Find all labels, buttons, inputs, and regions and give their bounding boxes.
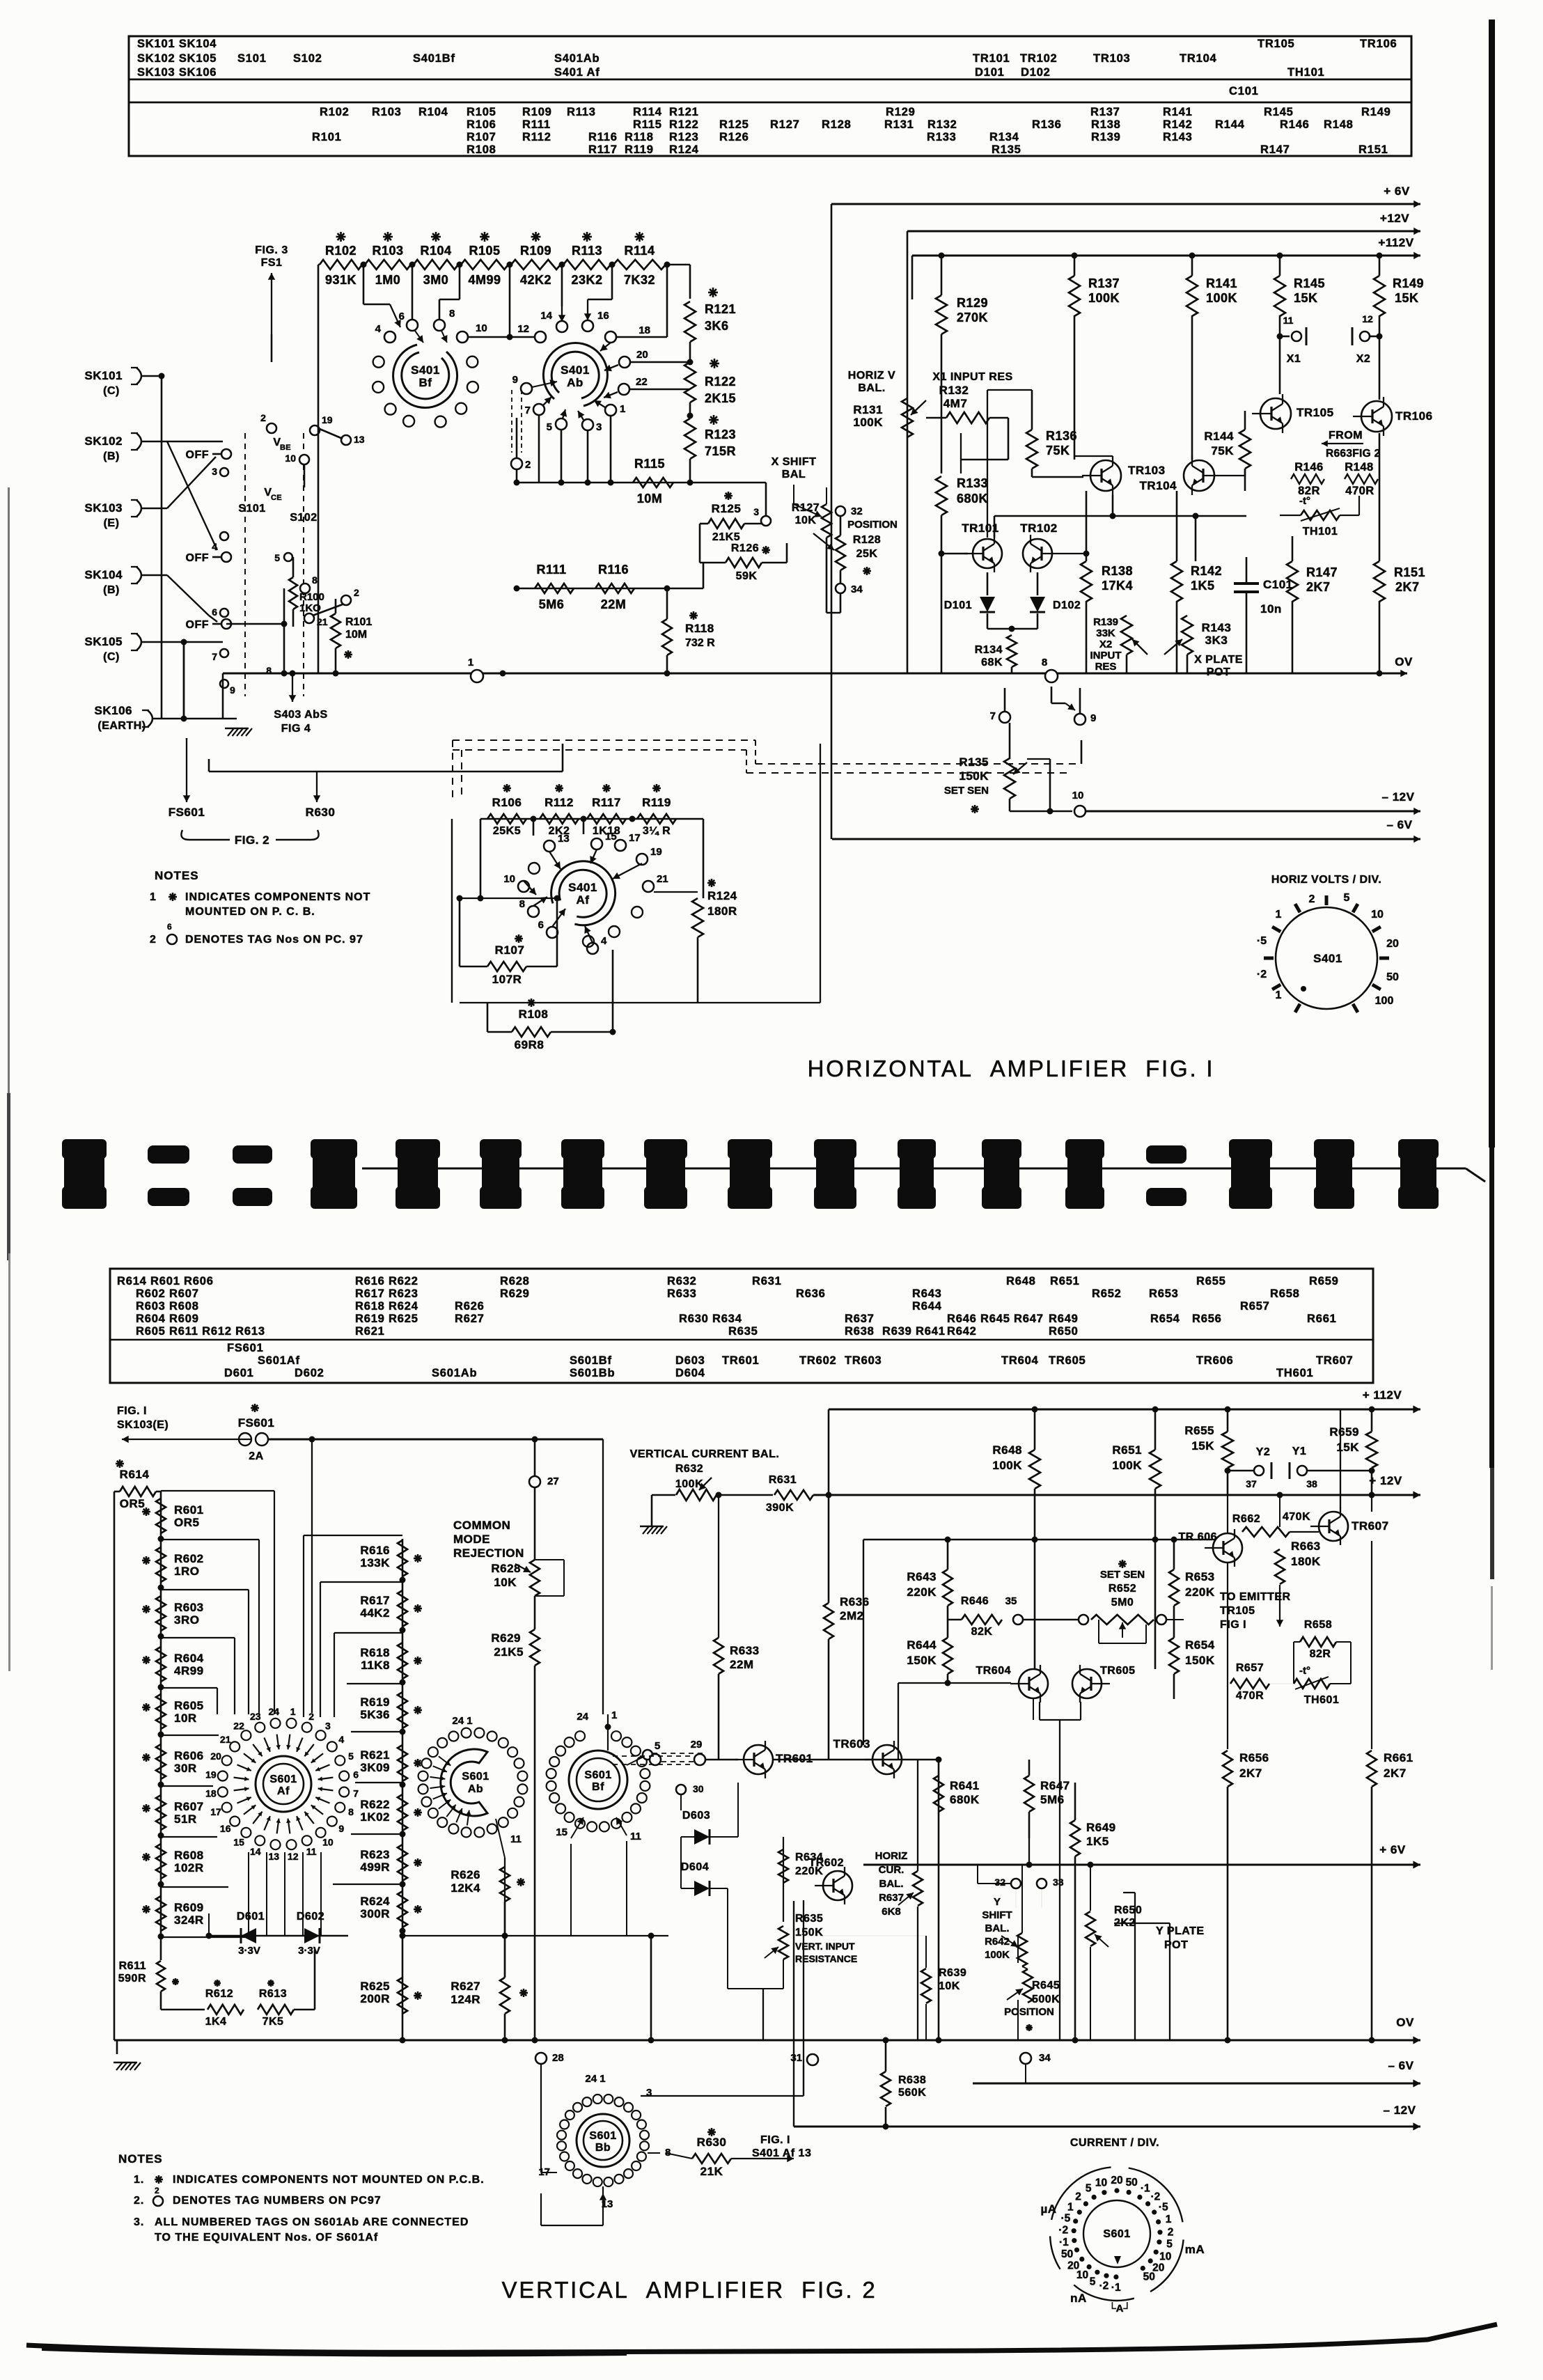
svg-text:– 12V: – 12V <box>1382 790 1415 804</box>
svg-text:R107: R107 <box>495 944 525 957</box>
svg-text:680K: 680K <box>957 492 988 506</box>
svg-text:2: 2 <box>525 459 531 471</box>
svg-text:R646 R645 R647: R646 R645 R647 <box>947 1313 1044 1325</box>
svg-text:2.: 2. <box>134 2195 144 2207</box>
svg-text:+ 112V: + 112V <box>1363 1388 1402 1402</box>
svg-text:Ab: Ab <box>567 376 583 389</box>
svg-text:3K09: 3K09 <box>360 1761 390 1774</box>
svg-text:SET SEN: SET SEN <box>1100 1569 1145 1581</box>
svg-text:S101: S101 <box>237 52 267 65</box>
svg-text:(EARTH): (EARTH) <box>97 720 146 732</box>
svg-text:– 6V: – 6V <box>1387 818 1413 831</box>
svg-text:5: 5 <box>547 421 552 433</box>
svg-text:R139: R139 <box>1093 616 1118 628</box>
svg-text:R629: R629 <box>500 1287 530 1300</box>
svg-text:15K: 15K <box>1395 291 1419 305</box>
svg-text:25K: 25K <box>856 548 878 560</box>
svg-text:3¼ R: 3¼ R <box>643 825 671 837</box>
svg-text:(B): (B) <box>103 451 120 462</box>
svg-text:124R: 124R <box>451 1993 480 2006</box>
svg-text:R631: R631 <box>769 1474 797 1486</box>
svg-text:S601: S601 <box>589 2130 616 2142</box>
svg-text:10: 10 <box>1159 2251 1171 2263</box>
svg-text:33: 33 <box>1053 1877 1064 1888</box>
svg-text:10: 10 <box>285 453 296 464</box>
svg-text:R146: R146 <box>1280 118 1310 131</box>
svg-text:R619: R619 <box>360 1696 390 1709</box>
svg-text:44K2: 44K2 <box>360 1606 390 1620</box>
svg-text:R117: R117 <box>592 796 621 809</box>
svg-text:X1: X1 <box>1287 353 1301 365</box>
svg-text:DENOTES TAG Nos ON PC. 97: DENOTES TAG Nos ON PC. 97 <box>185 934 363 946</box>
svg-text:R658: R658 <box>1304 1619 1332 1631</box>
svg-text:17: 17 <box>210 1806 221 1817</box>
svg-text:FS601: FS601 <box>227 1342 264 1354</box>
svg-text:68K: 68K <box>981 657 1003 668</box>
svg-text:9: 9 <box>1090 712 1096 724</box>
svg-text:R109: R109 <box>522 106 552 118</box>
svg-text:VERTICAL CURRENT BAL.: VERTICAL CURRENT BAL. <box>630 1448 780 1460</box>
svg-text:R135: R135 <box>992 143 1021 156</box>
svg-text:3.: 3. <box>134 2216 144 2228</box>
svg-text:C101: C101 <box>1229 85 1259 97</box>
svg-text:R663FIG 2: R663FIG 2 <box>1326 448 1381 460</box>
svg-text:R105: R105 <box>469 244 500 258</box>
svg-text:R113: R113 <box>572 244 602 258</box>
svg-text:21K5: 21K5 <box>494 1645 524 1659</box>
svg-text:R617: R617 <box>360 1594 390 1607</box>
svg-text:17K4: 17K4 <box>1102 579 1133 593</box>
svg-text:R635: R635 <box>795 1913 823 1925</box>
svg-text:4: 4 <box>212 541 217 552</box>
svg-text:10n: 10n <box>1260 602 1282 616</box>
svg-text:270K: 270K <box>957 311 988 324</box>
svg-text:R115: R115 <box>634 457 665 471</box>
svg-text:OV: OV <box>1395 655 1413 668</box>
svg-text:32: 32 <box>994 1877 1005 1888</box>
svg-text:INDICATES COMPONENTS NOT MO: INDICATES COMPONENTS NOT MOUNTED ON P.C.… <box>173 2174 485 2186</box>
svg-text:R112: R112 <box>545 796 574 809</box>
svg-text:R108: R108 <box>467 143 496 156</box>
svg-text:·1: ·1 <box>1059 2237 1069 2248</box>
svg-text:50: 50 <box>1126 2177 1138 2189</box>
svg-text:R662: R662 <box>1232 1513 1260 1525</box>
svg-text:R643: R643 <box>912 1287 942 1300</box>
svg-text:33K: 33K <box>1096 627 1115 639</box>
svg-text:X1 INPUT RES: X1 INPUT RES <box>932 371 1012 383</box>
svg-text:59K: 59K <box>736 570 758 582</box>
svg-text:S601Ab: S601Ab <box>432 1367 477 1379</box>
svg-text:R630: R630 <box>697 2136 727 2149</box>
svg-text:R151: R151 <box>1358 143 1388 156</box>
svg-text:HORIZ: HORIZ <box>875 1850 908 1862</box>
svg-text:R114: R114 <box>624 244 655 258</box>
svg-text:·2: ·2 <box>1257 969 1267 980</box>
svg-text:D603: D603 <box>675 1354 705 1367</box>
svg-text:R641: R641 <box>950 1779 980 1792</box>
svg-text:1: 1 <box>1067 2202 1074 2214</box>
svg-text:R661: R661 <box>1384 1751 1413 1764</box>
svg-text:100K: 100K <box>1112 1459 1142 1472</box>
svg-text:FIG. 3: FIG. 3 <box>255 244 288 256</box>
svg-text:TR101: TR101 <box>973 52 1010 65</box>
svg-text:R122: R122 <box>705 375 736 389</box>
svg-text:R601: R601 <box>174 1503 204 1517</box>
svg-text:1M0: 1M0 <box>375 273 401 287</box>
svg-text:– 6V: – 6V <box>1388 2059 1414 2072</box>
svg-text:10: 10 <box>503 873 515 885</box>
svg-text:21: 21 <box>657 873 668 885</box>
svg-text:2K7: 2K7 <box>1395 580 1420 594</box>
svg-text:5K36: 5K36 <box>360 1708 390 1721</box>
svg-text:51R: 51R <box>174 1813 197 1826</box>
svg-text:13: 13 <box>558 833 570 845</box>
svg-text:D102: D102 <box>1021 66 1051 79</box>
svg-text:7: 7 <box>525 405 531 416</box>
svg-text:9: 9 <box>230 684 235 696</box>
svg-text:100: 100 <box>1375 995 1394 1007</box>
svg-text:2K15: 2K15 <box>705 391 736 405</box>
svg-text:470K: 470K <box>1283 1511 1310 1523</box>
svg-text:1: 1 <box>1276 909 1282 921</box>
svg-text:TR603: TR603 <box>833 1737 870 1751</box>
svg-text:TR605: TR605 <box>1100 1665 1136 1677</box>
svg-text:– 12V: – 12V <box>1384 2104 1416 2117</box>
svg-text:R144: R144 <box>1215 118 1245 131</box>
svg-text:·1: ·1 <box>1141 2183 1150 2195</box>
svg-text:Af: Af <box>277 1785 290 1797</box>
svg-text:560K: 560K <box>898 2087 926 2099</box>
svg-text:TR603: TR603 <box>845 1354 882 1367</box>
svg-text:TR607: TR607 <box>1352 1519 1389 1533</box>
svg-text:HORIZ V: HORIZ V <box>848 370 895 382</box>
svg-text:D604: D604 <box>675 1367 705 1379</box>
svg-text:R109: R109 <box>520 244 551 258</box>
svg-text:(B): (B) <box>103 584 120 596</box>
svg-text:R146: R146 <box>1294 461 1323 473</box>
svg-text:TR103: TR103 <box>1128 464 1166 477</box>
svg-text:TO THE EQUIVALENT Nos. OF: TO THE EQUIVALENT Nos. OF S601Af <box>155 2232 378 2244</box>
svg-text:R655: R655 <box>1184 1424 1214 1437</box>
svg-text:R122: R122 <box>669 118 699 131</box>
svg-text:20: 20 <box>1111 2175 1122 2186</box>
svg-text:37: 37 <box>1246 1478 1257 1489</box>
svg-text:R133: R133 <box>927 131 957 143</box>
svg-text:S401Bf: S401Bf <box>413 52 455 65</box>
svg-text:13: 13 <box>269 1851 280 1862</box>
svg-text:R148: R148 <box>1345 461 1373 473</box>
svg-text:R617 R623: R617 R623 <box>355 1287 418 1300</box>
svg-text:R644: R644 <box>907 1638 937 1652</box>
svg-text:+112V: +112V <box>1378 236 1413 249</box>
svg-text:3K6: 3K6 <box>705 319 729 333</box>
svg-text:R116: R116 <box>598 563 629 577</box>
svg-text:R138: R138 <box>1091 118 1121 131</box>
svg-text:3K3: 3K3 <box>1205 634 1228 647</box>
svg-text:30: 30 <box>693 1783 704 1794</box>
svg-text:SK102 SK105: SK102 SK105 <box>137 52 217 65</box>
svg-text:BAL.: BAL. <box>879 1878 904 1890</box>
svg-text:R654: R654 <box>1185 1638 1215 1652</box>
svg-text:FIG. I: FIG. I <box>117 1405 147 1417</box>
svg-text:500K: 500K <box>1032 1994 1060 2005</box>
svg-text:R134: R134 <box>989 131 1019 143</box>
svg-text:6: 6 <box>353 1769 359 1780</box>
svg-text:TR606: TR606 <box>1196 1354 1234 1367</box>
svg-text:X2: X2 <box>1356 353 1371 365</box>
svg-text:R149: R149 <box>1393 276 1424 290</box>
svg-text:S401: S401 <box>1313 952 1342 965</box>
svg-text:5: 5 <box>1090 2276 1096 2288</box>
svg-text:BAL.: BAL. <box>858 382 885 394</box>
svg-text:R131: R131 <box>853 403 883 416</box>
svg-text:13: 13 <box>354 434 365 445</box>
svg-text:7K32: 7K32 <box>624 273 655 287</box>
svg-text:BAL: BAL <box>782 469 806 480</box>
svg-text:22M: 22M <box>730 1658 754 1671</box>
svg-text:R659: R659 <box>1309 1275 1339 1287</box>
svg-text:24 1: 24 1 <box>452 1715 472 1727</box>
svg-text:28: 28 <box>552 2052 564 2064</box>
svg-text:R619 R625: R619 R625 <box>355 1313 418 1325</box>
svg-text:9: 9 <box>512 374 518 386</box>
svg-text:nA: nA <box>1070 2292 1087 2305</box>
svg-text:390K: 390K <box>766 1502 794 1514</box>
svg-text:R129: R129 <box>886 106 916 118</box>
svg-text:R124: R124 <box>707 889 737 902</box>
svg-text:R108: R108 <box>519 1008 549 1021</box>
svg-text:S101: S101 <box>238 503 265 515</box>
svg-text:TH601: TH601 <box>1304 1694 1340 1706</box>
svg-text:1K4: 1K4 <box>205 2016 227 2028</box>
svg-text:FIG. I: FIG. I <box>760 2134 790 2146</box>
svg-text:R104: R104 <box>420 244 451 258</box>
svg-text:19: 19 <box>650 846 662 858</box>
svg-text:31: 31 <box>790 2052 802 2064</box>
svg-text:5: 5 <box>1166 2239 1173 2250</box>
svg-text:R614 R601 R606: R614 R601 R606 <box>117 1275 214 1287</box>
svg-text:R651: R651 <box>1112 1443 1142 1457</box>
svg-text:R613: R613 <box>259 1988 287 2000</box>
svg-text:R663: R663 <box>1291 1540 1321 1553</box>
svg-text:3: 3 <box>646 2087 652 2099</box>
svg-text:R636: R636 <box>840 1595 870 1608</box>
svg-text:300R: 300R <box>360 1907 390 1920</box>
svg-text:R653: R653 <box>1185 1570 1215 1583</box>
svg-text:931K: 931K <box>325 273 357 287</box>
svg-text:HORIZONTAL AMPLIFIER FIG. I: HORIZONTAL AMPLIFIER FIG. I <box>808 1056 1215 1081</box>
svg-text:SK101 SK104: SK101 SK104 <box>137 38 217 50</box>
svg-text:TR102: TR102 <box>1020 52 1058 65</box>
svg-text:TR104: TR104 <box>1139 479 1177 492</box>
svg-text:(C): (C) <box>103 385 120 397</box>
svg-text:12K4: 12K4 <box>451 1881 480 1895</box>
svg-text:5: 5 <box>655 1740 660 1752</box>
svg-text:TH101: TH101 <box>1303 526 1338 538</box>
svg-text:R114: R114 <box>633 106 662 118</box>
svg-text:ALL NUMBERED TAGS ON S601A: ALL NUMBERED TAGS ON S601Ab ARE CONNECTE… <box>155 2216 469 2228</box>
svg-text:R656: R656 <box>1239 1751 1269 1764</box>
svg-text:mA: mA <box>1185 2243 1205 2256</box>
svg-text:Y: Y <box>994 1896 1001 1908</box>
svg-text:100K: 100K <box>1206 291 1237 305</box>
svg-text:X PLATE: X PLATE <box>1194 654 1243 666</box>
svg-text:+ 6V: + 6V <box>1379 1843 1406 1856</box>
svg-text:34: 34 <box>1039 2052 1051 2064</box>
svg-text:NOTES: NOTES <box>155 869 199 882</box>
svg-text:R638: R638 <box>845 1325 875 1338</box>
svg-text:715R: 715R <box>705 444 736 458</box>
svg-text:82R: 82R <box>1310 1648 1331 1660</box>
svg-text:1RO: 1RO <box>174 1565 199 1578</box>
svg-text:(C): (C) <box>103 651 120 663</box>
svg-text:D601: D601 <box>224 1367 254 1379</box>
svg-text:BAL.: BAL. <box>985 1923 1010 1934</box>
svg-text:7K5: 7K5 <box>263 2016 284 2028</box>
svg-text:150K: 150K <box>795 1927 823 1939</box>
svg-text:R147: R147 <box>1260 143 1290 156</box>
svg-text:R106: R106 <box>492 796 522 809</box>
svg-text:24: 24 <box>269 1706 280 1717</box>
svg-text:4R99: 4R99 <box>174 1664 204 1677</box>
svg-text:50: 50 <box>1061 2248 1073 2260</box>
svg-text:HORIZ VOLTS / DIV.: HORIZ VOLTS / DIV. <box>1271 874 1381 886</box>
svg-text:R147: R147 <box>1306 565 1338 579</box>
svg-text:R126: R126 <box>719 131 749 143</box>
svg-text:R116: R116 <box>588 131 618 143</box>
svg-text:R103: R103 <box>372 244 403 258</box>
svg-text:20: 20 <box>1386 938 1399 950</box>
svg-text:1: 1 <box>611 1709 617 1721</box>
svg-text:R101: R101 <box>312 131 342 143</box>
svg-text:470R: 470R <box>1345 485 1374 497</box>
svg-text:OR5: OR5 <box>174 1516 199 1529</box>
svg-text:23: 23 <box>250 1711 261 1722</box>
svg-text:X SHIFT: X SHIFT <box>771 456 817 468</box>
svg-text:R607: R607 <box>174 1800 204 1813</box>
svg-text:R657: R657 <box>1240 1300 1270 1313</box>
svg-text:R626: R626 <box>451 1868 480 1881</box>
svg-text:25K5: 25K5 <box>493 825 521 837</box>
svg-text:TR106: TR106 <box>1395 409 1433 423</box>
svg-text:1K5: 1K5 <box>1086 1835 1109 1848</box>
svg-text:R639 R641: R639 R641 <box>882 1325 946 1338</box>
svg-text:29: 29 <box>691 1739 703 1751</box>
svg-text:SK103: SK103 <box>85 501 123 515</box>
svg-text:CUR.: CUR. <box>879 1864 904 1876</box>
svg-text:INPUT: INPUT <box>1090 650 1122 661</box>
svg-text:11: 11 <box>630 1831 641 1842</box>
svg-text:+ 12V: + 12V <box>1369 1474 1402 1487</box>
svg-text:R121: R121 <box>705 302 736 316</box>
svg-text:1: 1 <box>290 1706 296 1717</box>
svg-text:TR105: TR105 <box>1220 1605 1255 1617</box>
svg-text:Y PLATE: Y PLATE <box>1156 1925 1205 1937</box>
svg-text:3: 3 <box>325 1721 331 1732</box>
svg-text:R621: R621 <box>360 1748 390 1762</box>
svg-text:15: 15 <box>233 1836 244 1847</box>
svg-text:SK102: SK102 <box>85 434 123 448</box>
svg-text:R633: R633 <box>730 1644 760 1657</box>
svg-text:NOTES: NOTES <box>118 2152 163 2166</box>
svg-text:MOUNTED ON P. C. B.: MOUNTED ON P. C. B. <box>185 906 315 918</box>
svg-text:TR601: TR601 <box>776 1752 813 1765</box>
svg-text:22: 22 <box>233 1721 244 1732</box>
svg-text:R648: R648 <box>1006 1275 1036 1287</box>
svg-text:7: 7 <box>990 710 996 722</box>
svg-text:R115: R115 <box>633 118 662 131</box>
svg-text:VERTICAL AMPLIFIER FIG. 2: VERTICAL AMPLIFIER FIG. 2 <box>502 2277 877 2303</box>
svg-text:R123: R123 <box>669 131 699 143</box>
svg-text:11K8: 11K8 <box>361 1659 390 1672</box>
svg-text:R628: R628 <box>500 1275 530 1287</box>
svg-text:15K: 15K <box>1294 291 1318 305</box>
svg-text:R649: R649 <box>1086 1821 1116 1834</box>
svg-text:TR 606: TR 606 <box>1179 1531 1217 1543</box>
svg-text:R127: R127 <box>770 118 800 131</box>
svg-text:4: 4 <box>338 1734 344 1745</box>
svg-text:R132: R132 <box>939 384 969 397</box>
svg-text:POT: POT <box>1207 666 1230 678</box>
svg-text:R618 R624: R618 R624 <box>355 1300 418 1313</box>
svg-text:R119: R119 <box>642 796 671 809</box>
svg-text:2: 2 <box>1309 893 1315 905</box>
svg-text:2: 2 <box>354 587 359 598</box>
svg-text:D102: D102 <box>1053 600 1081 611</box>
svg-text:R609: R609 <box>174 1901 204 1914</box>
svg-text:23K2: 23K2 <box>571 273 602 287</box>
svg-text:2: 2 <box>155 2186 159 2195</box>
svg-text:R612: R612 <box>205 1988 233 2000</box>
svg-text:11: 11 <box>1283 315 1294 326</box>
svg-text:5M6: 5M6 <box>539 597 565 611</box>
svg-text:S601: S601 <box>1103 2228 1130 2240</box>
svg-text:R148: R148 <box>1324 118 1354 131</box>
svg-text:8: 8 <box>348 1806 354 1817</box>
svg-text:SK103 SK106: SK103 SK106 <box>137 66 217 79</box>
svg-text:R639: R639 <box>939 1967 966 1979</box>
svg-text:CURRENT / DIV.: CURRENT / DIV. <box>1070 2137 1159 2149</box>
svg-text:R111: R111 <box>536 563 566 577</box>
svg-text:18: 18 <box>639 324 650 336</box>
svg-text:-t°: -t° <box>1299 495 1310 507</box>
svg-text:S601Bf: S601Bf <box>570 1354 612 1367</box>
svg-text:TR102: TR102 <box>1020 522 1058 535</box>
svg-text:FIG 4: FIG 4 <box>281 723 311 735</box>
svg-text:+12V: +12V <box>1380 212 1409 225</box>
svg-text:24 1: 24 1 <box>585 2073 605 2085</box>
svg-text:SK104: SK104 <box>85 568 123 581</box>
svg-text:102R: 102R <box>174 1861 204 1874</box>
svg-text:D601: D601 <box>237 1911 265 1923</box>
svg-text:R627: R627 <box>451 1980 480 1993</box>
svg-text:R633: R633 <box>667 1287 697 1300</box>
svg-text:220K: 220K <box>907 1586 937 1599</box>
svg-text:8: 8 <box>1042 657 1047 668</box>
svg-text:Y2: Y2 <box>1256 1446 1271 1458</box>
svg-text:180R: 180R <box>707 905 737 918</box>
svg-text:150K: 150K <box>1185 1654 1215 1667</box>
svg-text:R134: R134 <box>975 644 1003 656</box>
svg-text:5: 5 <box>1086 2183 1092 2195</box>
svg-text:S401: S401 <box>568 881 597 894</box>
svg-text:22: 22 <box>636 376 648 388</box>
svg-text:R111: R111 <box>522 118 551 131</box>
svg-text:R603 R608: R603 R608 <box>136 1300 199 1313</box>
svg-text:4M7: 4M7 <box>943 397 968 410</box>
svg-text:10M: 10M <box>345 629 367 641</box>
svg-text:TR106: TR106 <box>1360 38 1397 50</box>
